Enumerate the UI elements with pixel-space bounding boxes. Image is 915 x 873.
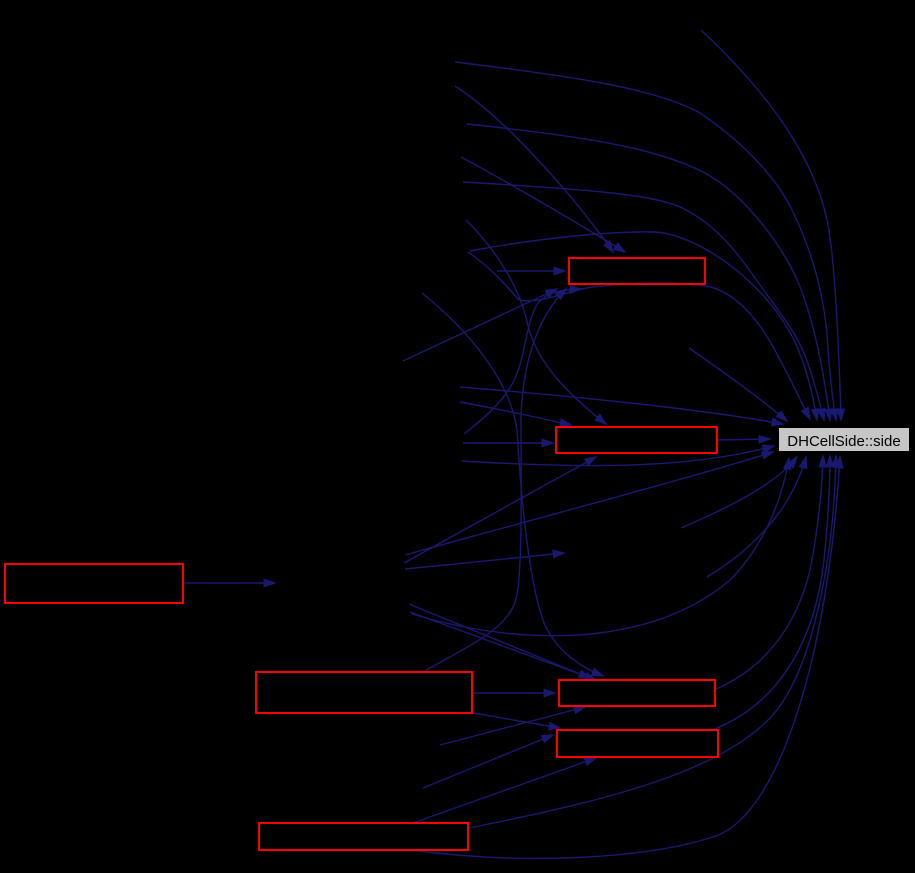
edge mid box to box A <box>473 692 555 694</box>
edge bB to box B left <box>423 735 553 788</box>
edge bottom box bottom to node <box>411 457 840 858</box>
edge riser to top box bottom <box>464 289 581 434</box>
edge T3 <box>463 182 824 420</box>
mid red box <box>256 672 472 713</box>
edge f to middle box top <box>466 220 606 424</box>
edge left box to N1 <box>184 582 275 584</box>
edge N1 to node <box>405 452 773 555</box>
top red box <box>569 258 705 284</box>
left red box <box>5 564 183 603</box>
edge C to box A bottom <box>440 707 585 745</box>
edge middle box to node <box>718 439 770 440</box>
edge i <box>460 387 783 424</box>
edge T2 <box>467 124 830 420</box>
edge N1 to middle box bottom <box>404 457 596 563</box>
edge bottom box right to node <box>469 456 836 828</box>
edge N1 to N2 <box>405 553 564 569</box>
box B <box>557 730 718 757</box>
edge T5 top outer curve to node <box>701 30 841 420</box>
edge m to box A top <box>422 293 603 676</box>
edge box B to node <box>712 456 830 730</box>
bottom red box <box>259 823 468 850</box>
edge N1 to box A top <box>409 604 590 678</box>
edge T1 <box>455 62 836 420</box>
edge U to node <box>412 458 789 636</box>
edge j to middle box <box>460 402 571 425</box>
edge Q mid box to top box bottom <box>423 289 566 672</box>
edge T4 <box>470 232 817 420</box>
middle red box <box>556 427 717 453</box>
edge b to top box <box>455 86 613 252</box>
edge l to node <box>462 446 774 466</box>
edge diag to top box bottom-left <box>403 289 557 361</box>
svg-text:DHCellSide::side: DHCellSide::side <box>787 433 900 450</box>
edge box A to node <box>716 456 823 689</box>
edge T6 <box>689 348 787 421</box>
box A <box>559 680 715 706</box>
edge N1 to box A top second <box>410 612 596 680</box>
node DHCellSide::side <box>779 428 909 451</box>
edge bottom box to box B bottom <box>410 758 596 824</box>
edge under top box to node <box>468 252 810 419</box>
edge mid box to box B <box>473 713 560 728</box>
edge d to top box <box>461 157 625 252</box>
edge h to top box left <box>497 270 565 272</box>
edge S3 to node <box>681 457 797 528</box>
edge k to middle box left <box>463 442 553 444</box>
edge S4 to node <box>707 457 806 577</box>
